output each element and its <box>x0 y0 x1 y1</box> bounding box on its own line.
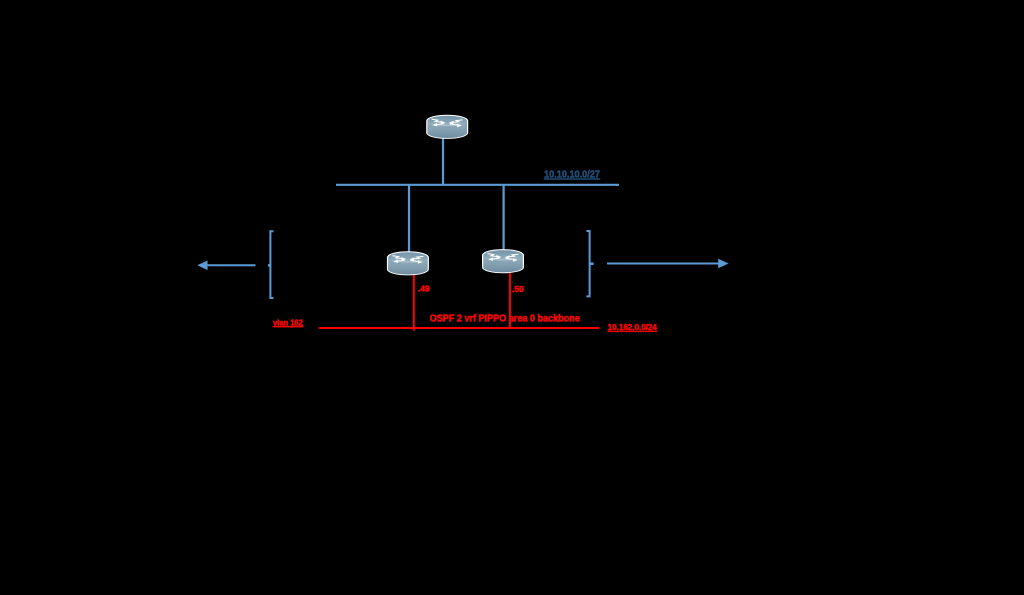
svg-text:vlan 162: vlan 162 <box>273 318 304 327</box>
svg-text:.49: .49 <box>418 283 430 293</box>
svg-text:.50: .50 <box>512 284 524 294</box>
wire: LAN drop to right router <box>503 185 505 250</box>
router R-right <box>483 250 524 273</box>
router R-top <box>427 115 468 138</box>
arrow right <box>607 263 719 265</box>
arrow left <box>207 264 256 266</box>
wire: LAN drop to left router <box>408 185 410 252</box>
wire: red backbone segment <box>319 327 599 329</box>
wire: right router to red backbone <box>509 272 511 329</box>
brace left <box>270 231 273 298</box>
wire: left router to red backbone <box>413 274 415 331</box>
svg-text:10.10.10.0/27: 10.10.10.0/27 <box>544 170 601 181</box>
router R-left <box>388 252 429 275</box>
svg-text:10.162.0.0/24: 10.162.0.0/24 <box>608 323 658 332</box>
brace right <box>586 231 589 296</box>
wire: LAN segment 10.10.10.0/27 <box>336 184 619 186</box>
wire: top router to LAN segment <box>442 137 444 185</box>
svg-text:OSPF 2 vrf PIPPO area 0 backbo: OSPF 2 vrf PIPPO area 0 backbone <box>430 314 581 325</box>
